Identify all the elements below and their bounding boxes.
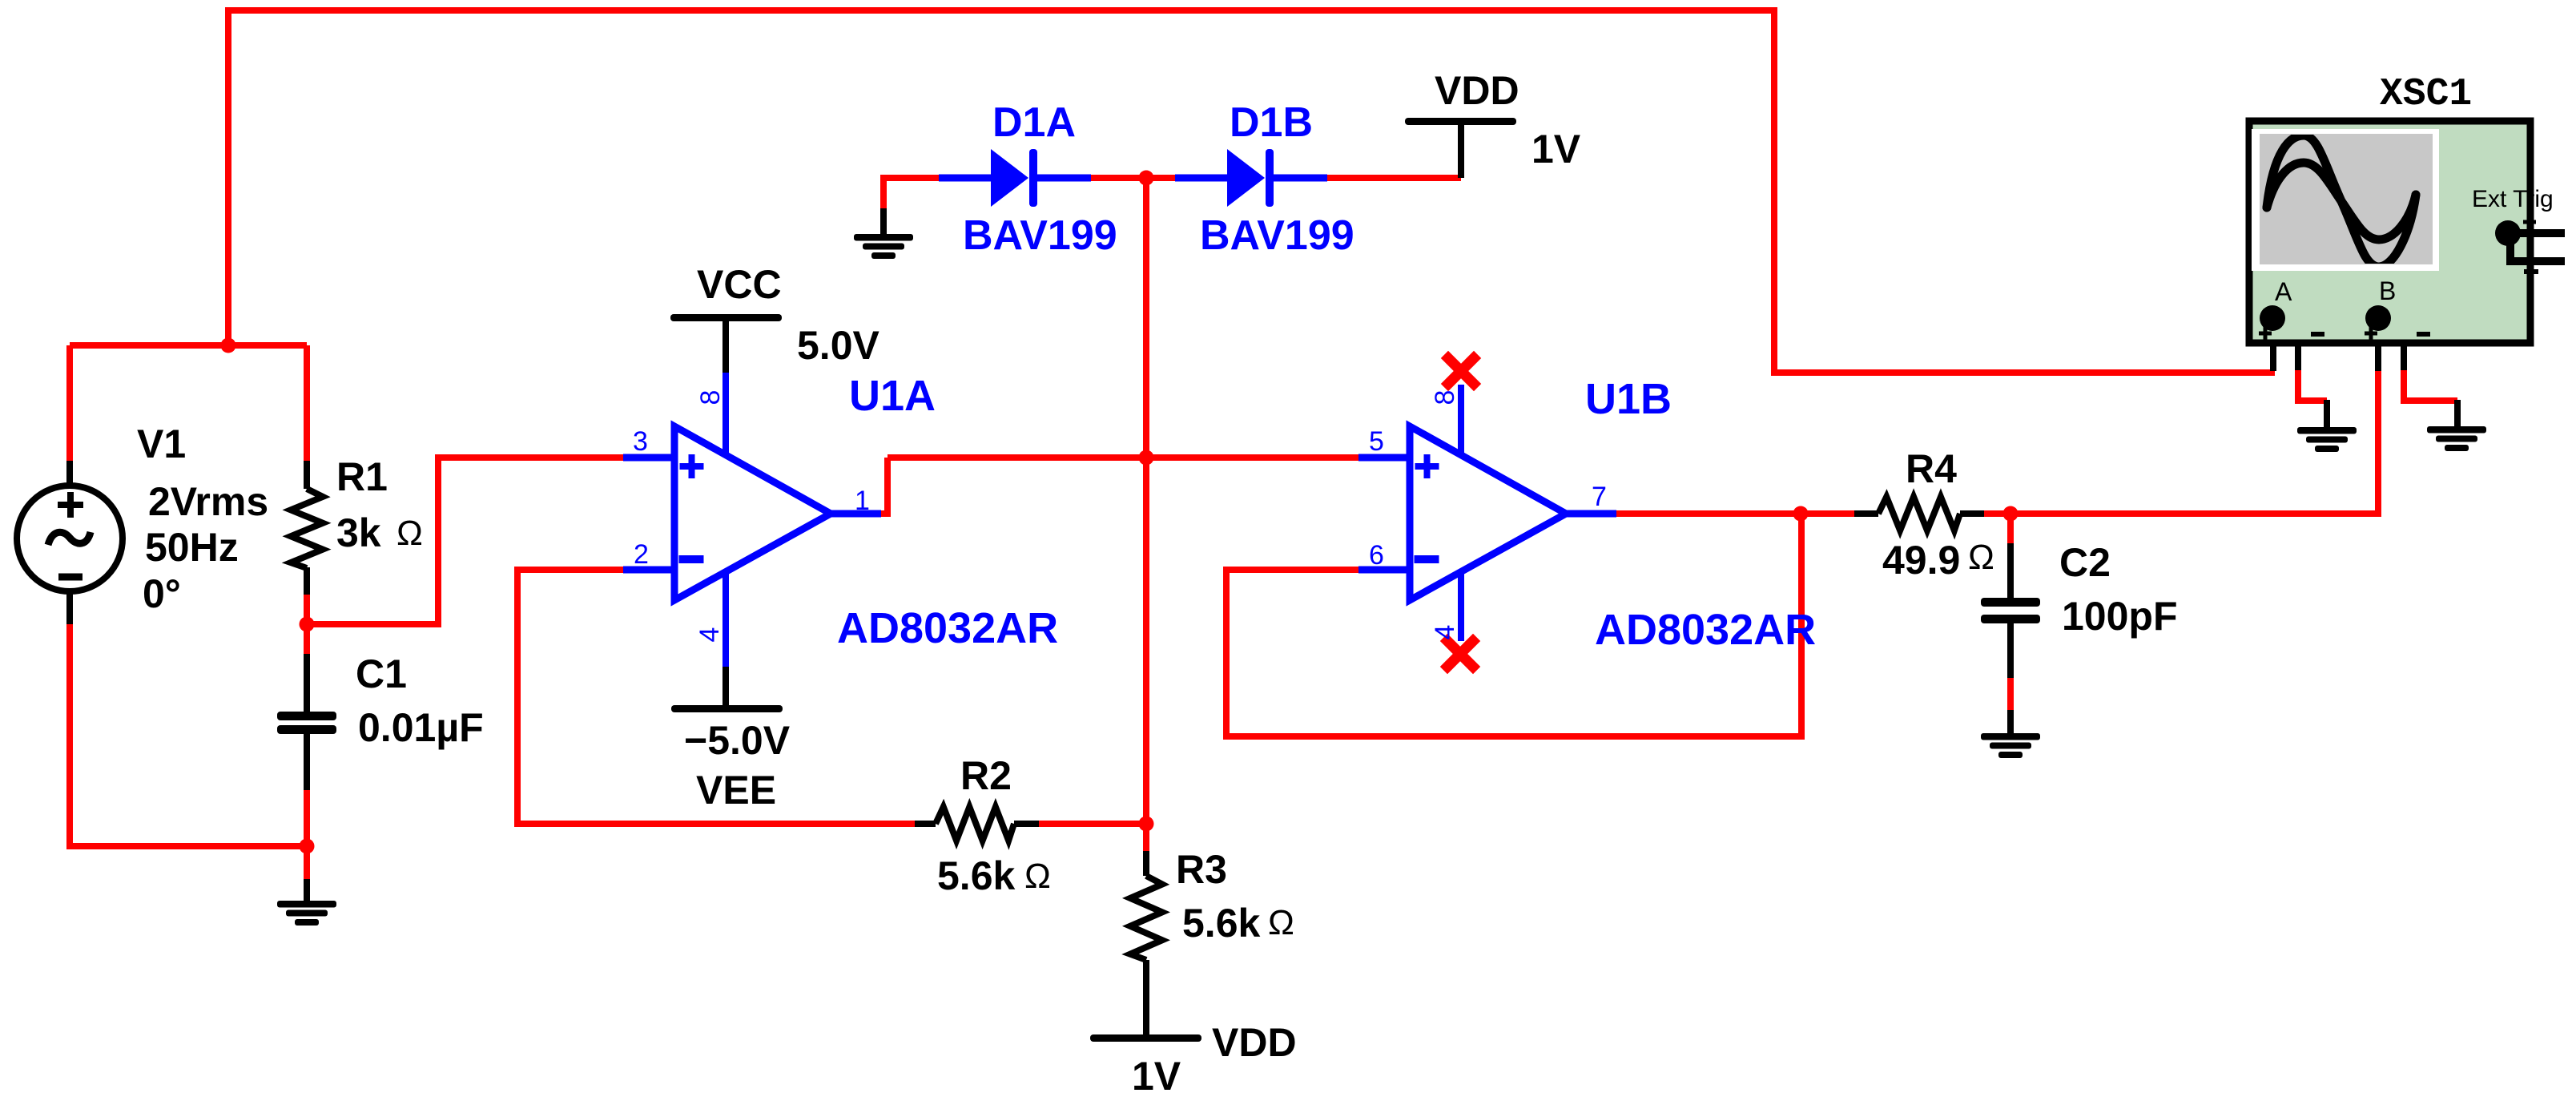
svg-text:Ω: Ω xyxy=(1024,857,1051,896)
svg-text:AD8032AR: AD8032AR xyxy=(837,604,1058,652)
svg-text:4: 4 xyxy=(694,627,725,643)
svg-text:2: 2 xyxy=(634,539,649,570)
svg-text:3: 3 xyxy=(633,426,648,457)
svg-text:VCC: VCC xyxy=(697,262,782,307)
svg-text:3k: 3k xyxy=(336,510,381,555)
svg-text:XSC1: XSC1 xyxy=(2380,73,2472,116)
svg-text:R2: R2 xyxy=(960,753,1012,798)
svg-text:0.01µF: 0.01µF xyxy=(358,705,484,750)
svg-text:B: B xyxy=(2379,276,2396,305)
svg-text:VEE: VEE xyxy=(696,768,776,813)
svg-text:U1B: U1B xyxy=(1585,375,1672,423)
svg-text:8: 8 xyxy=(695,390,726,405)
svg-text:VDD: VDD xyxy=(1435,68,1519,113)
svg-text:D1B: D1B xyxy=(1230,99,1313,146)
svg-text:AD8032AR: AD8032AR xyxy=(1595,606,1816,654)
svg-text:50Hz: 50Hz xyxy=(145,525,239,570)
svg-text:5: 5 xyxy=(1369,426,1384,457)
svg-text:R4: R4 xyxy=(1906,446,1957,491)
svg-text:7: 7 xyxy=(1592,482,1607,512)
svg-text:1V: 1V xyxy=(1532,127,1581,171)
svg-text:U1A: U1A xyxy=(849,372,936,420)
svg-text:BAV199: BAV199 xyxy=(963,212,1117,259)
svg-text:4: 4 xyxy=(1430,625,1460,640)
svg-text:100pF: 100pF xyxy=(2062,594,2178,639)
svg-text:R3: R3 xyxy=(1176,847,1227,892)
svg-text:C1: C1 xyxy=(356,651,407,696)
svg-text:Ω: Ω xyxy=(1268,903,1294,942)
svg-text:0°: 0° xyxy=(143,571,181,616)
svg-text:6: 6 xyxy=(1369,540,1384,571)
svg-text:1V: 1V xyxy=(1132,1054,1181,1099)
svg-text:BAV199: BAV199 xyxy=(1200,212,1354,259)
svg-text:5.6k: 5.6k xyxy=(937,853,1016,898)
svg-text:−5.0V: −5.0V xyxy=(684,718,791,763)
svg-text:R1: R1 xyxy=(336,454,388,499)
svg-text:V1: V1 xyxy=(137,421,186,466)
svg-text:Ω: Ω xyxy=(396,514,423,553)
svg-text:49.9: 49.9 xyxy=(1882,538,1960,583)
svg-text:A: A xyxy=(2275,277,2292,306)
svg-text:5.0V: 5.0V xyxy=(797,323,880,368)
svg-text:8: 8 xyxy=(1430,390,1460,405)
svg-text:C2: C2 xyxy=(2059,540,2111,585)
svg-text:2Vrms: 2Vrms xyxy=(148,479,268,524)
svg-text:D1A: D1A xyxy=(992,99,1076,146)
svg-text:1: 1 xyxy=(855,486,870,516)
svg-text:Ext Trig: Ext Trig xyxy=(2472,186,2554,212)
svg-text:VDD: VDD xyxy=(1212,1020,1297,1065)
svg-text:Ω: Ω xyxy=(1968,538,1994,577)
svg-text:5.6k: 5.6k xyxy=(1182,901,1261,946)
